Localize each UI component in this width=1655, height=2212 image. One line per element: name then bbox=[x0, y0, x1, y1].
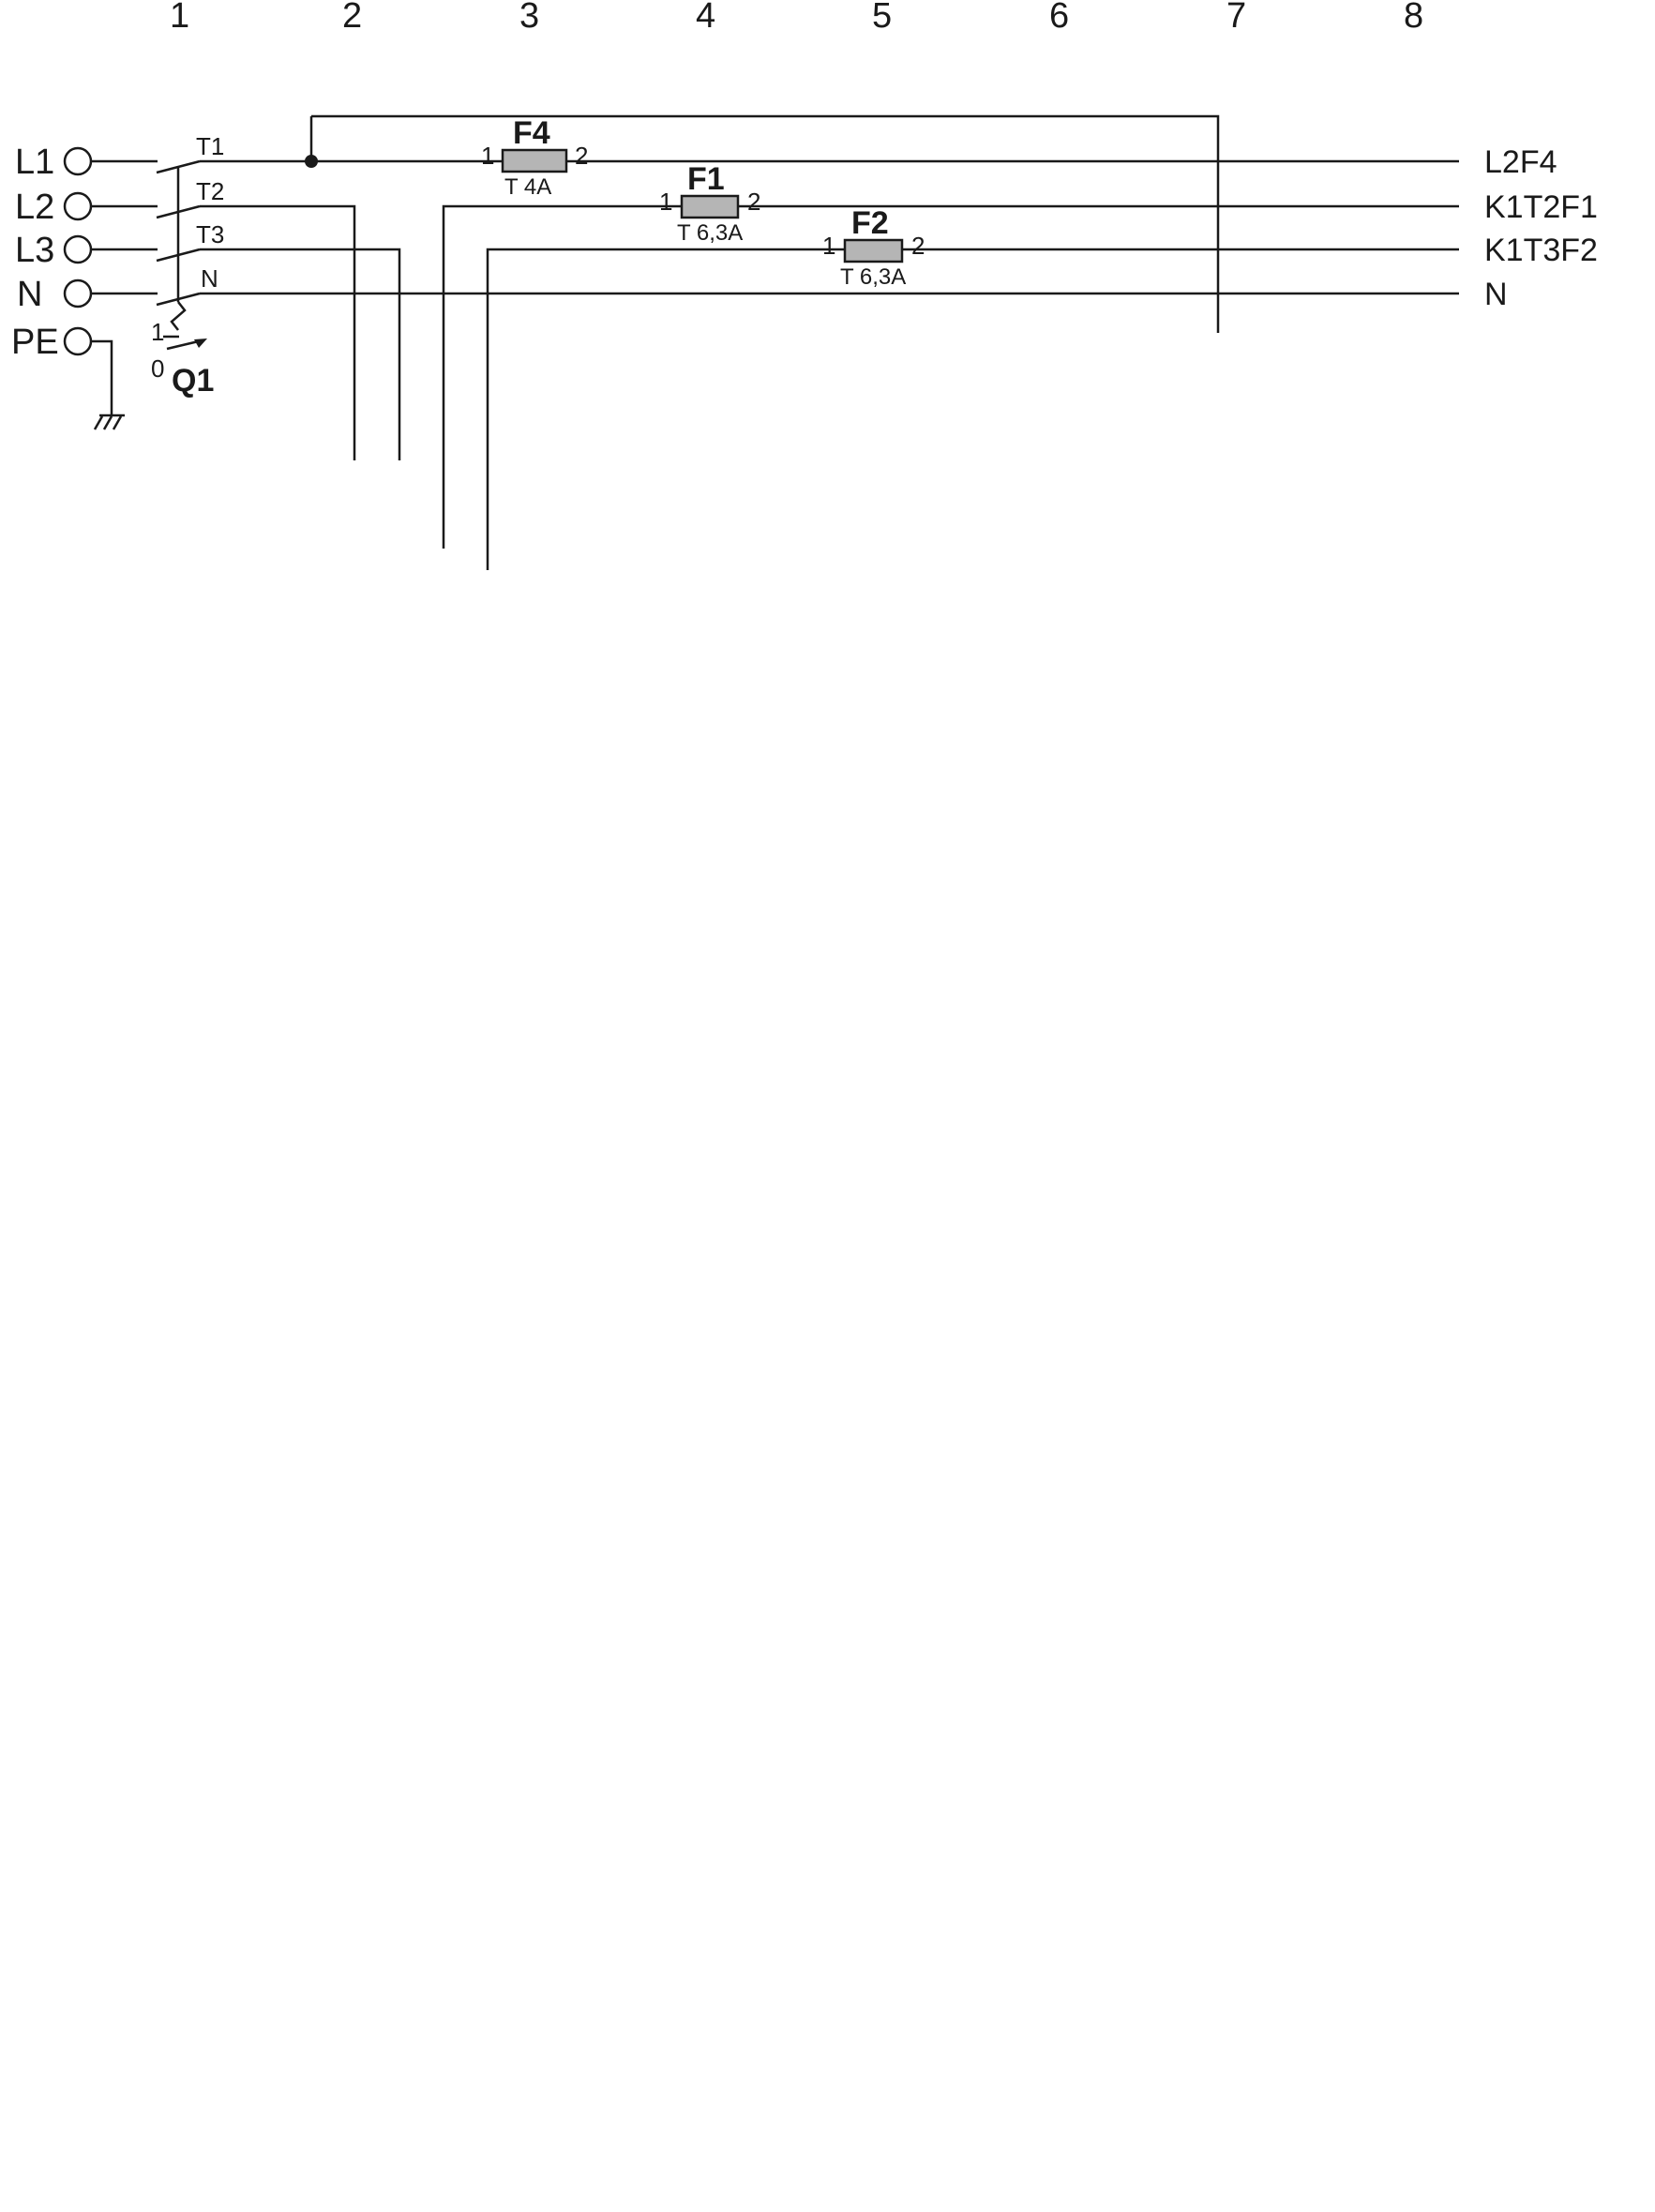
wire T2 row left bbox=[200, 206, 354, 460]
svg-text:3: 3 bbox=[519, 0, 539, 36]
svg-text:L2F4: L2F4 bbox=[1484, 144, 1557, 180]
svg-text:T3: T3 bbox=[196, 220, 224, 248]
svg-text:1: 1 bbox=[822, 232, 835, 260]
svg-text:5: 5 bbox=[872, 0, 892, 36]
terminal PE bbox=[11, 323, 91, 362]
wire L1 to Q1 bbox=[91, 160, 158, 163]
svg-text:PE: PE bbox=[11, 323, 59, 362]
svg-text:K1T2F1: K1T2F1 bbox=[1484, 189, 1598, 225]
svg-text:L3: L3 bbox=[15, 231, 54, 270]
svg-text:N: N bbox=[17, 275, 42, 314]
svg-text:0: 0 bbox=[151, 354, 164, 383]
svg-text:2: 2 bbox=[575, 142, 588, 170]
svg-text:F4: F4 bbox=[513, 115, 550, 151]
svg-text:T 6,3A: T 6,3A bbox=[840, 264, 906, 290]
svg-text:K1T3F2: K1T3F2 bbox=[1484, 233, 1598, 268]
svg-text:1: 1 bbox=[659, 188, 672, 216]
terminal L3 bbox=[15, 231, 91, 270]
wire PE to ground bbox=[91, 341, 112, 415]
wire L3 to Q1 bbox=[91, 248, 158, 251]
fuse F1 bbox=[659, 161, 760, 246]
svg-text:T 4A: T 4A bbox=[504, 174, 551, 200]
wire N to Q1 bbox=[91, 293, 158, 295]
wire K1T3F2 row bbox=[488, 249, 1459, 570]
svg-text:7: 7 bbox=[1226, 0, 1246, 36]
terminal L2 bbox=[15, 188, 91, 227]
wire K1T2F1 row bbox=[444, 206, 1459, 549]
svg-text:Q1: Q1 bbox=[172, 363, 214, 399]
svg-text:1: 1 bbox=[170, 0, 189, 36]
ground PE bbox=[95, 415, 125, 429]
svg-text:6: 6 bbox=[1049, 0, 1069, 36]
svg-text:T2: T2 bbox=[196, 177, 224, 205]
svg-text:N: N bbox=[201, 264, 218, 293]
wire T1 riser to top rail bbox=[310, 116, 313, 161]
svg-text:L2: L2 bbox=[15, 188, 54, 227]
node T1 tap bbox=[305, 155, 318, 168]
svg-text:N: N bbox=[1484, 277, 1508, 312]
svg-text:L1: L1 bbox=[15, 143, 54, 182]
label Q1 positions bbox=[151, 318, 214, 399]
terminal L1 bbox=[15, 143, 91, 182]
svg-text:4: 4 bbox=[696, 0, 715, 36]
wire N row bbox=[200, 293, 1459, 295]
wire T1 row bbox=[200, 160, 1459, 163]
svg-text:1: 1 bbox=[481, 142, 494, 170]
terminal N bbox=[17, 275, 91, 314]
wire top rail to F3 bbox=[311, 116, 1218, 333]
svg-text:1: 1 bbox=[151, 318, 164, 346]
svg-text:8: 8 bbox=[1404, 0, 1423, 36]
svg-text:F2: F2 bbox=[851, 205, 889, 241]
disconnect switch Q1 bbox=[157, 161, 207, 349]
wire T3 row left bbox=[200, 249, 399, 460]
svg-text:2: 2 bbox=[911, 232, 925, 260]
fuse F4 bbox=[481, 115, 588, 200]
svg-text:T 6,3A: T 6,3A bbox=[677, 220, 743, 246]
svg-text:T1: T1 bbox=[196, 132, 224, 160]
wire L2 to Q1 bbox=[91, 205, 158, 208]
svg-text:2: 2 bbox=[342, 0, 362, 36]
svg-text:2: 2 bbox=[747, 188, 760, 216]
column ruler numbers bbox=[170, 0, 1423, 36]
svg-text:F1: F1 bbox=[687, 161, 725, 197]
fuse F2 bbox=[822, 205, 925, 290]
